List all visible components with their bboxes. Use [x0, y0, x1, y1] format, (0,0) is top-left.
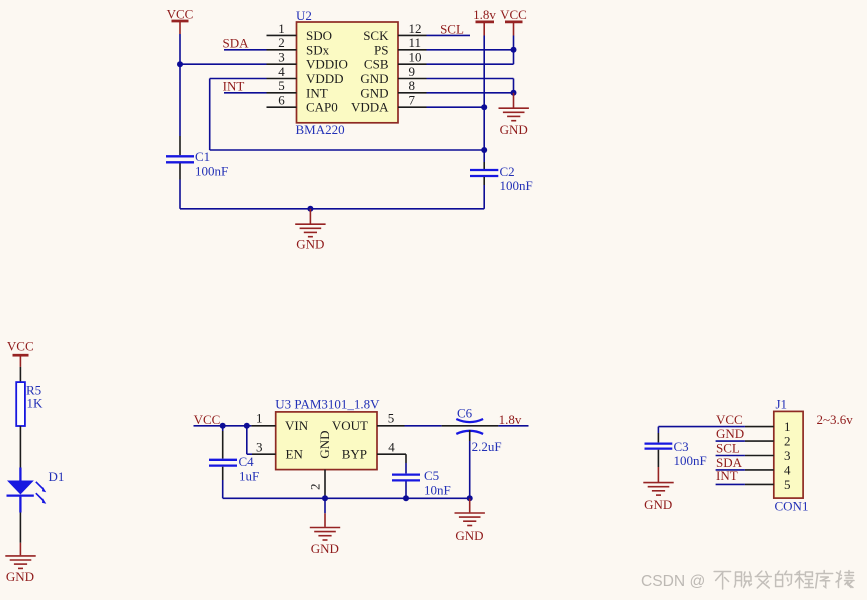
svg-text:CON1: CON1 [775, 498, 809, 513]
svg-text:100nF: 100nF [674, 453, 707, 468]
svg-text:GND: GND [455, 528, 483, 543]
svg-text:4: 4 [784, 463, 791, 478]
svg-text:3: 3 [278, 50, 285, 65]
svg-text:10nF: 10nF [424, 483, 451, 498]
svg-text:7: 7 [409, 93, 416, 108]
svg-text:GND: GND [500, 122, 528, 137]
svg-text:3: 3 [784, 448, 791, 463]
svg-text:GND: GND [360, 85, 388, 100]
svg-text:2: 2 [278, 35, 285, 50]
svg-text:VCC: VCC [500, 7, 527, 22]
svg-text:10: 10 [409, 50, 422, 65]
svg-text:INT: INT [306, 85, 328, 100]
svg-text:BMA220: BMA220 [296, 122, 345, 137]
svg-text:INT: INT [716, 468, 738, 483]
svg-text:SCL: SCL [440, 21, 464, 36]
svg-text:GND: GND [644, 497, 672, 512]
svg-text:VIN: VIN [285, 418, 309, 433]
svg-text:12: 12 [409, 21, 422, 36]
svg-text:100nF: 100nF [500, 178, 533, 193]
svg-text:GND: GND [311, 541, 339, 556]
svg-text:U2: U2 [296, 8, 312, 23]
svg-text:J1: J1 [776, 396, 788, 411]
svg-text:1: 1 [784, 419, 791, 434]
svg-text:5: 5 [278, 78, 285, 93]
svg-text:SDx: SDx [306, 42, 330, 57]
svg-text:GND: GND [296, 237, 324, 252]
svg-text:VCC: VCC [167, 7, 194, 22]
svg-text:SCL: SCL [716, 440, 740, 455]
svg-text:5: 5 [784, 477, 791, 492]
svg-text:1: 1 [256, 411, 263, 426]
svg-text:D1: D1 [49, 469, 65, 484]
svg-text:1uF: 1uF [239, 469, 259, 484]
svg-text:EN: EN [286, 446, 304, 461]
svg-text:4: 4 [388, 440, 395, 455]
svg-text:2~3.6v: 2~3.6v [817, 412, 854, 427]
svg-text:VDDIO: VDDIO [306, 57, 348, 72]
svg-text:SCK: SCK [363, 28, 389, 43]
svg-text:SDO: SDO [306, 28, 332, 43]
svg-text:VCC: VCC [194, 412, 221, 427]
svg-text:C4: C4 [239, 454, 255, 469]
svg-text:CSDN @: CSDN @ [641, 573, 705, 590]
svg-text:BYP: BYP [342, 446, 367, 461]
svg-text:8: 8 [409, 78, 416, 93]
svg-text:VOUT: VOUT [332, 418, 368, 433]
svg-text:4: 4 [278, 64, 285, 79]
svg-text:C5: C5 [424, 468, 439, 483]
svg-text:2.2uF: 2.2uF [472, 439, 502, 454]
svg-text:GND: GND [716, 426, 744, 441]
svg-text:CAP0: CAP0 [306, 100, 338, 115]
svg-text:9: 9 [409, 64, 416, 79]
svg-text:PS: PS [374, 42, 388, 57]
svg-text:1.8v: 1.8v [473, 7, 496, 22]
svg-text:2: 2 [784, 434, 791, 449]
svg-text:CSB: CSB [364, 57, 389, 72]
svg-text:INT: INT [223, 79, 245, 94]
svg-text:C2: C2 [500, 164, 515, 179]
svg-text:1: 1 [278, 21, 285, 36]
svg-text:C1: C1 [195, 149, 210, 164]
svg-text:SDA: SDA [222, 35, 249, 50]
svg-text:100nF: 100nF [195, 164, 228, 179]
svg-text:11: 11 [409, 35, 422, 50]
svg-text:GND: GND [6, 569, 34, 584]
svg-text:VDDD: VDDD [306, 71, 344, 86]
svg-text:C6: C6 [457, 405, 473, 420]
svg-text:VCC: VCC [7, 338, 34, 353]
svg-text:C3: C3 [674, 439, 689, 454]
svg-text:1.8v: 1.8v [499, 412, 522, 427]
svg-text:GND: GND [317, 430, 332, 458]
svg-text:U3 PAM3101_1.8V: U3 PAM3101_1.8V [275, 396, 380, 411]
svg-text:VDDA: VDDA [351, 100, 389, 115]
svg-text:5: 5 [388, 411, 395, 426]
svg-text:6: 6 [278, 93, 285, 108]
svg-text:2: 2 [307, 484, 322, 491]
svg-text:3: 3 [256, 440, 263, 455]
svg-text:VCC: VCC [716, 412, 743, 427]
svg-text:1K: 1K [27, 395, 44, 410]
svg-text:GND: GND [360, 71, 388, 86]
